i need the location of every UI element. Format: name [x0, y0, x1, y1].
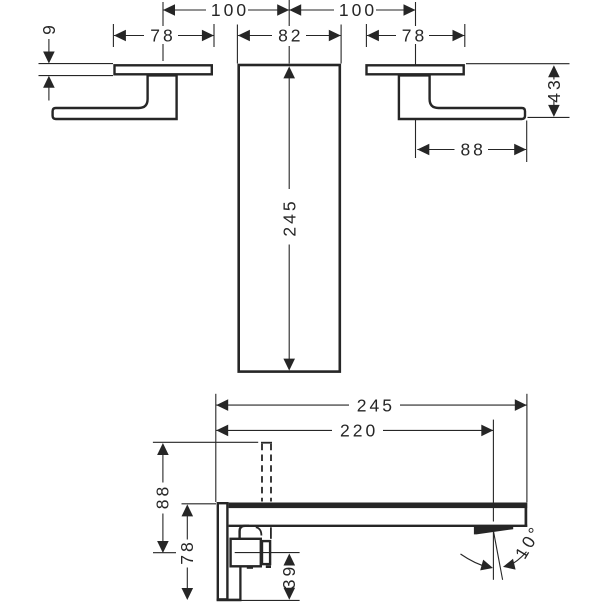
svg-text:78: 78	[150, 26, 175, 46]
svg-text:220: 220	[340, 421, 378, 441]
svg-text:245: 245	[357, 395, 395, 415]
svg-text:245: 245	[279, 198, 299, 236]
svg-text:78: 78	[402, 26, 427, 46]
svg-text:100: 100	[339, 0, 377, 20]
svg-text:88: 88	[153, 484, 173, 509]
svg-text:88: 88	[460, 140, 485, 160]
svg-text:39: 39	[279, 564, 299, 589]
svg-text:100: 100	[211, 0, 249, 20]
svg-text:9: 9	[39, 22, 59, 35]
svg-text:82: 82	[278, 26, 303, 46]
svg-text:78: 78	[177, 539, 197, 564]
svg-text:43: 43	[544, 77, 564, 102]
